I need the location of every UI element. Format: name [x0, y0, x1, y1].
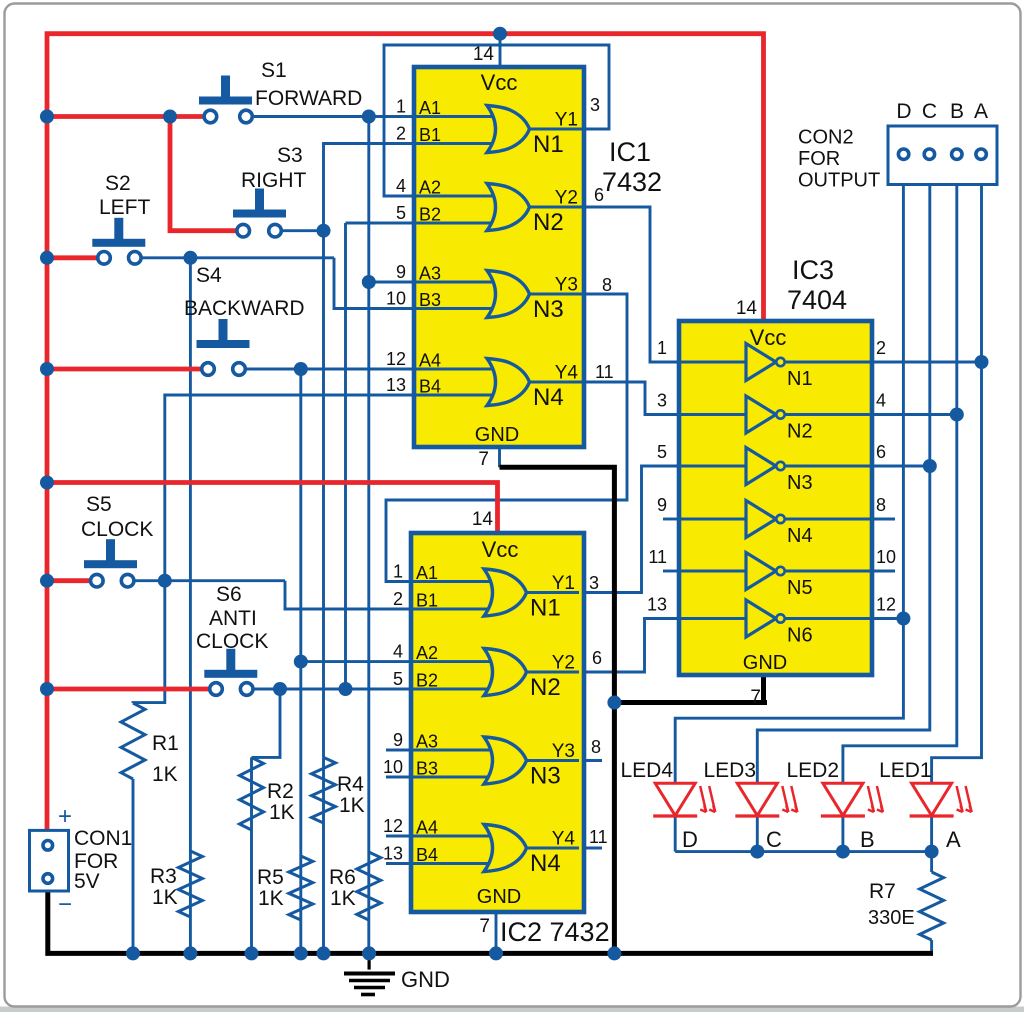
- svg-text:4: 4: [876, 391, 886, 411]
- svg-text:12: 12: [876, 595, 896, 615]
- svg-text:R1: R1: [152, 732, 179, 755]
- svg-text:B1: B1: [419, 125, 441, 145]
- svg-text:IC1: IC1: [609, 137, 651, 167]
- svg-text:A4: A4: [416, 818, 438, 838]
- svg-text:S3: S3: [277, 144, 303, 167]
- svg-text:13: 13: [647, 595, 667, 615]
- svg-text:13: 13: [386, 375, 406, 395]
- svg-text:B4: B4: [416, 845, 438, 865]
- svg-text:N3: N3: [787, 472, 813, 494]
- svg-text:LEFT: LEFT: [99, 196, 151, 219]
- svg-text:CON1: CON1: [74, 827, 132, 850]
- svg-text:Y1: Y1: [555, 110, 578, 131]
- svg-text:5: 5: [657, 442, 667, 462]
- svg-text:A: A: [974, 100, 988, 123]
- svg-text:N4: N4: [533, 384, 564, 411]
- svg-text:1: 1: [657, 338, 667, 358]
- svg-text:N5: N5: [787, 577, 813, 599]
- svg-text:FORWARD: FORWARD: [255, 87, 362, 110]
- svg-text:B3: B3: [419, 290, 441, 310]
- svg-text:D: D: [682, 827, 698, 852]
- svg-text:9: 9: [393, 730, 403, 750]
- svg-text:14: 14: [473, 44, 495, 65]
- svg-text:B: B: [950, 100, 964, 123]
- svg-text:11: 11: [648, 547, 667, 567]
- svg-text:3: 3: [589, 573, 599, 593]
- svg-text:5: 5: [396, 203, 406, 223]
- svg-text:IC2 7432: IC2 7432: [500, 917, 610, 947]
- svg-text:N2: N2: [530, 674, 561, 701]
- svg-text:CON2: CON2: [798, 127, 854, 149]
- svg-text:FOR: FOR: [798, 148, 840, 170]
- svg-text:9: 9: [657, 495, 667, 515]
- svg-text:1K: 1K: [269, 801, 295, 824]
- svg-text:3: 3: [590, 95, 600, 115]
- svg-text:+: +: [58, 803, 72, 830]
- svg-text:6: 6: [592, 648, 602, 668]
- svg-text:A3: A3: [419, 264, 441, 284]
- svg-text:LED1: LED1: [879, 759, 932, 782]
- svg-text:ANTI: ANTI: [209, 607, 257, 630]
- svg-text:14: 14: [472, 509, 494, 530]
- svg-text:LED3: LED3: [703, 759, 756, 782]
- svg-text:330E: 330E: [868, 907, 915, 929]
- svg-text:LED4: LED4: [620, 759, 673, 782]
- svg-text:7: 7: [479, 916, 490, 937]
- svg-text:14: 14: [736, 298, 758, 319]
- svg-text:GND: GND: [477, 886, 521, 908]
- svg-text:S1: S1: [261, 59, 287, 82]
- svg-text:1: 1: [396, 97, 406, 117]
- svg-text:R7: R7: [869, 880, 896, 903]
- svg-text:8: 8: [602, 275, 612, 295]
- svg-text:B4: B4: [419, 377, 441, 397]
- svg-text:6: 6: [876, 442, 886, 462]
- svg-text:12: 12: [383, 816, 403, 836]
- svg-text:BACKWARD: BACKWARD: [184, 297, 305, 320]
- svg-text:2: 2: [876, 338, 886, 358]
- svg-text:N4: N4: [530, 850, 561, 877]
- svg-text:LED2: LED2: [786, 759, 839, 782]
- svg-text:11: 11: [595, 362, 614, 382]
- svg-text:RIGHT: RIGHT: [241, 169, 307, 192]
- svg-text:N2: N2: [787, 421, 813, 443]
- svg-text:R2: R2: [267, 780, 294, 803]
- svg-text:A3: A3: [416, 732, 438, 752]
- svg-text:B1: B1: [416, 591, 438, 611]
- svg-text:S5: S5: [86, 493, 112, 516]
- svg-text:2: 2: [396, 124, 406, 144]
- svg-text:N2: N2: [533, 209, 564, 236]
- svg-text:N3: N3: [533, 296, 564, 323]
- svg-text:R6: R6: [329, 866, 356, 889]
- svg-text:GND: GND: [475, 424, 519, 446]
- svg-text:B2: B2: [416, 671, 438, 691]
- svg-text:4: 4: [393, 642, 403, 662]
- svg-text:GND: GND: [401, 967, 450, 992]
- svg-text:13: 13: [383, 844, 403, 864]
- svg-text:8: 8: [876, 495, 886, 515]
- svg-text:10: 10: [386, 289, 406, 309]
- svg-text:B: B: [860, 827, 875, 852]
- svg-text:Y3: Y3: [552, 741, 575, 762]
- svg-text:C: C: [766, 827, 782, 852]
- svg-text:Y2: Y2: [552, 653, 575, 674]
- svg-text:CLOCK: CLOCK: [196, 630, 268, 653]
- svg-text:A: A: [946, 827, 961, 852]
- svg-text:N4: N4: [787, 525, 813, 547]
- svg-text:Y2: Y2: [555, 188, 578, 209]
- svg-text:8: 8: [591, 737, 601, 757]
- svg-text:R3: R3: [150, 865, 177, 888]
- svg-text:7: 7: [478, 449, 489, 470]
- svg-text:S2: S2: [105, 172, 131, 195]
- svg-text:GND: GND: [743, 652, 787, 674]
- svg-text:OUTPUT: OUTPUT: [798, 170, 880, 192]
- svg-text:3: 3: [657, 391, 667, 411]
- svg-text:12: 12: [386, 349, 406, 369]
- svg-text:10: 10: [876, 547, 896, 567]
- svg-text:1K: 1K: [152, 886, 178, 909]
- svg-text:2: 2: [393, 589, 403, 609]
- svg-text:N3: N3: [530, 763, 561, 790]
- svg-text:R4: R4: [337, 773, 364, 796]
- svg-text:N1: N1: [530, 595, 561, 622]
- svg-text:7: 7: [750, 687, 761, 708]
- svg-text:10: 10: [383, 757, 403, 777]
- svg-text:4: 4: [396, 176, 406, 196]
- svg-text:Vcc: Vcc: [481, 70, 518, 95]
- svg-text:IC3: IC3: [792, 255, 834, 285]
- svg-text:S6: S6: [216, 583, 242, 606]
- svg-text:A4: A4: [419, 351, 441, 371]
- svg-text:CLOCK: CLOCK: [81, 518, 153, 541]
- svg-text:Y4: Y4: [555, 363, 579, 384]
- svg-text:1K: 1K: [152, 763, 178, 786]
- svg-text:−: −: [58, 891, 72, 918]
- svg-text:7404: 7404: [787, 285, 847, 315]
- svg-text:B2: B2: [419, 205, 441, 225]
- svg-text:N1: N1: [533, 131, 564, 158]
- svg-text:C: C: [922, 100, 937, 123]
- svg-text:1K: 1K: [339, 794, 365, 817]
- svg-text:Vcc: Vcc: [750, 325, 787, 350]
- svg-text:5: 5: [393, 669, 403, 689]
- svg-text:A1: A1: [416, 563, 438, 583]
- svg-text:N6: N6: [787, 625, 813, 647]
- svg-text:9: 9: [396, 262, 406, 282]
- svg-text:D: D: [896, 100, 911, 123]
- svg-text:11: 11: [589, 827, 608, 847]
- svg-text:A2: A2: [419, 178, 441, 198]
- svg-text:7432: 7432: [602, 167, 662, 197]
- svg-text:Y4: Y4: [552, 829, 576, 850]
- svg-text:Vcc: Vcc: [482, 537, 519, 562]
- svg-text:Y3: Y3: [555, 275, 578, 296]
- svg-text:B3: B3: [416, 759, 438, 779]
- svg-text:5V: 5V: [74, 870, 100, 893]
- svg-text:A2: A2: [416, 643, 438, 663]
- svg-text:R5: R5: [257, 866, 284, 889]
- svg-text:A1: A1: [419, 98, 441, 118]
- svg-text:1: 1: [393, 562, 403, 582]
- svg-text:Y1: Y1: [552, 573, 575, 594]
- svg-text:1K: 1K: [330, 887, 356, 910]
- svg-text:S4: S4: [196, 264, 222, 287]
- svg-text:N1: N1: [787, 368, 813, 390]
- svg-text:1K: 1K: [258, 887, 284, 910]
